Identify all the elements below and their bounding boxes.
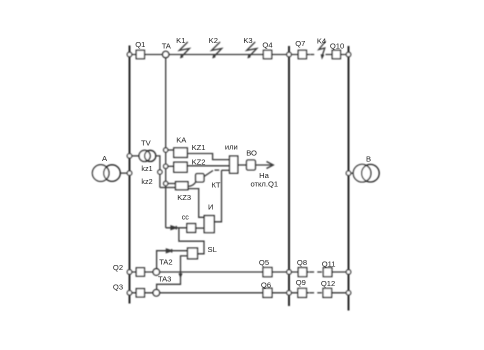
bus middle bbox=[288, 46, 290, 306]
diode VD2 bbox=[166, 249, 171, 253]
wire bus to TV bbox=[130, 155, 140, 157]
node bus-middle Q8 bbox=[287, 270, 292, 275]
breaker Q10 bbox=[332, 50, 340, 58]
wire KT contact junction to OR gate bbox=[222, 169, 230, 171]
svg-text:kz2: kz2 bbox=[141, 177, 152, 186]
node bus-right Q11 bbox=[346, 270, 351, 275]
transformer B winding wire bbox=[349, 172, 354, 174]
node bus-middle Q9 bbox=[287, 291, 292, 296]
output block BO box bbox=[247, 160, 256, 170]
wire row Q3 (line 2 lower) bbox=[130, 292, 310, 294]
svg-text:Q1: Q1 bbox=[135, 40, 145, 49]
wire TA secondary to cc diode bbox=[166, 227, 187, 229]
svg-text:КТ: КТ bbox=[212, 181, 221, 190]
breaker Q7 bbox=[298, 50, 306, 58]
svg-text:Q3: Q3 bbox=[113, 283, 123, 292]
voltage transformer TV bbox=[139, 150, 150, 161]
fault K3 bbox=[247, 42, 257, 59]
current transformer TA bbox=[163, 51, 169, 57]
wire TA2 to diode VD2 to SL bbox=[157, 251, 188, 269]
node on TV line bbox=[158, 170, 162, 174]
svg-text:И: И bbox=[208, 203, 213, 212]
svg-text:K3: K3 bbox=[243, 36, 252, 45]
wire TA secondary vertical bbox=[165, 58, 167, 228]
wire row Q2 (line 1 lower) bbox=[130, 271, 310, 273]
breaker Q3 bbox=[136, 289, 144, 297]
svg-text:Q2: Q2 bbox=[113, 263, 123, 272]
svg-text:KZ1: KZ1 bbox=[192, 143, 206, 152]
wire node3 to KZ3 box bbox=[166, 183, 176, 185]
node kz2 on TA line row3 bbox=[164, 181, 168, 185]
breaker Q5 bbox=[263, 268, 272, 277]
svg-text:KZ3: KZ3 bbox=[177, 193, 191, 202]
wire KZ3 to AND gate bbox=[188, 189, 204, 218]
svg-text:KA: KA bbox=[176, 135, 187, 144]
wire top tie line bbox=[130, 54, 311, 56]
node bus-left Q3 bbox=[127, 291, 132, 296]
node kz1 on TA line bbox=[164, 148, 168, 152]
wire SL to TA3 bbox=[157, 256, 188, 290]
wire dashes Q9-Q12 bbox=[309, 292, 314, 294]
transformer A bbox=[92, 165, 109, 182]
node on TA line row2 bbox=[164, 164, 168, 168]
breaker Q6 bbox=[263, 288, 272, 297]
transformer A winding wire bbox=[120, 172, 129, 174]
breaker Q9 bbox=[298, 288, 307, 297]
capacitor cc box bbox=[187, 224, 196, 233]
node bus-left Q2 bbox=[127, 270, 132, 275]
AND gate box (И) bbox=[204, 216, 214, 233]
svg-text:SL: SL bbox=[208, 245, 217, 254]
svg-text:Q4: Q4 bbox=[262, 41, 272, 50]
wire node2 to KZ2 box bbox=[166, 165, 174, 167]
timer KT box bbox=[196, 174, 204, 182]
svg-text:K2: K2 bbox=[209, 36, 218, 45]
svg-text:сс: сс bbox=[182, 212, 190, 221]
svg-text:Q10: Q10 bbox=[330, 42, 344, 51]
wire KZ1 to OR gate bbox=[187, 154, 229, 160]
svg-text:ВО: ВО bbox=[246, 149, 257, 158]
node bus-left top bbox=[127, 52, 132, 57]
svg-text:TA3: TA3 bbox=[158, 274, 171, 283]
node bus-left TV bbox=[127, 154, 132, 159]
wire AND output up to KT junction bbox=[214, 170, 221, 222]
wire Q12 to right bus bbox=[323, 292, 349, 294]
arrow on SL-TA3 wire bbox=[178, 273, 182, 278]
svg-text:TA2: TA2 bbox=[159, 257, 172, 266]
breaker Q12 bbox=[323, 288, 332, 297]
fault K2 bbox=[212, 42, 222, 59]
relay KZ2 box bbox=[174, 162, 187, 172]
wire KZ2 to OR gate bbox=[187, 165, 229, 167]
wire cc branch to SL bbox=[179, 228, 204, 254]
breaker Q11 bbox=[323, 268, 332, 277]
svg-text:Q8: Q8 bbox=[297, 258, 307, 267]
node bus-right transformer B bbox=[346, 171, 351, 176]
svg-text:kz1: kz1 bbox=[141, 164, 152, 173]
wire Q11 to right bus bbox=[323, 271, 349, 273]
fault K4 bbox=[319, 41, 326, 60]
svg-text:В: В bbox=[366, 155, 371, 164]
svg-text:K4: K4 bbox=[317, 36, 326, 45]
breaker Q1 bbox=[136, 50, 144, 58]
wire K4-Q10-node bbox=[326, 54, 349, 56]
svg-text:Q5: Q5 bbox=[259, 258, 269, 267]
wire dashes Q8-Q11 bbox=[309, 271, 314, 273]
breaker Q4 bbox=[263, 50, 271, 58]
bus left (section A busbar) bbox=[129, 46, 131, 304]
wire TV to KZ3 lower input bbox=[160, 187, 176, 189]
relay KZ3 box bbox=[176, 182, 189, 190]
svg-text:KZ2: KZ2 bbox=[192, 157, 206, 166]
wire TV secondary bbox=[156, 156, 160, 188]
svg-text:откл.Q1: откл.Q1 bbox=[250, 179, 278, 188]
wire node1 to KZ1 box bbox=[166, 149, 174, 151]
svg-text:TA: TA bbox=[162, 42, 172, 51]
svg-text:Q12: Q12 bbox=[321, 279, 335, 288]
wire OR to BO bbox=[238, 164, 247, 166]
wire dashed segment Q7-K4 bbox=[310, 54, 314, 56]
fault K1 bbox=[179, 42, 189, 59]
svg-text:Q9: Q9 bbox=[296, 278, 306, 287]
current transformer TA2 bbox=[153, 269, 160, 276]
svg-text:Q11: Q11 bbox=[322, 259, 336, 268]
bus right (section B busbar) bbox=[348, 46, 350, 311]
svg-text:А: А bbox=[102, 154, 108, 163]
svg-text:K1: K1 bbox=[176, 36, 185, 45]
node bus-middle top bbox=[287, 52, 292, 57]
current transformer TA3 bbox=[153, 290, 160, 297]
signal lamp SL box bbox=[188, 248, 198, 259]
breaker Q8 bbox=[298, 268, 307, 277]
node bus-right Q12 bbox=[346, 291, 351, 296]
node bus-right top bbox=[346, 52, 351, 57]
wire cc to AND bbox=[196, 227, 205, 229]
svg-text:или: или bbox=[225, 143, 238, 152]
diode VD1 bbox=[171, 226, 176, 230]
relay KZ1 (KA) box bbox=[174, 148, 188, 158]
wire BO output arrow bbox=[255, 164, 272, 166]
transformer B bbox=[353, 164, 371, 182]
svg-text:Q6: Q6 bbox=[261, 280, 271, 289]
KT contact blade bbox=[204, 171, 213, 177]
OR gate box (или) bbox=[230, 156, 238, 173]
wire KZ3 to KT coil (curve) bbox=[188, 182, 196, 187]
node bus-left transformer A bbox=[127, 171, 132, 176]
KT contact dash bbox=[215, 169, 220, 171]
breaker Q2 bbox=[136, 268, 144, 276]
svg-text:Q7: Q7 bbox=[295, 39, 305, 48]
svg-text:TV: TV bbox=[141, 138, 152, 147]
